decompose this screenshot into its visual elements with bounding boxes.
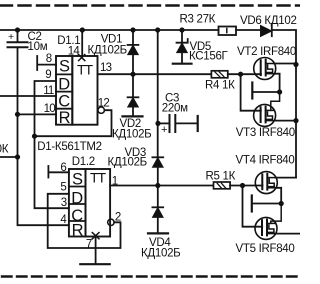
svg-text:D1.2: D1.2 — [72, 156, 95, 168]
svg-text:R3 27К: R3 27К — [180, 13, 216, 25]
svg-text:+: + — [161, 124, 167, 136]
svg-text:КД102Б: КД102Б — [88, 45, 127, 57]
svg-text:VD6 КД102: VD6 КД102 — [240, 15, 297, 27]
svg-text:S: S — [72, 171, 83, 189]
svg-text:3: 3 — [61, 197, 67, 209]
svg-text:TT: TT — [90, 169, 107, 185]
svg-text:7: 7 — [86, 239, 92, 251]
svg-text:+: + — [8, 31, 14, 43]
svg-text:R: R — [72, 221, 84, 239]
svg-text:R4 1К: R4 1К — [205, 80, 235, 92]
svg-text:1: 1 — [112, 176, 118, 188]
svg-text:10: 10 — [44, 103, 56, 115]
svg-text:8: 8 — [46, 53, 52, 65]
svg-text:R5 1К: R5 1К — [206, 170, 236, 182]
svg-text:VT5 IRF840: VT5 IRF840 — [236, 243, 295, 255]
svg-text:D1-К561ТМ2: D1-К561ТМ2 — [37, 141, 101, 153]
svg-text:S: S — [59, 58, 70, 76]
svg-text:13: 13 — [100, 62, 112, 74]
svg-text:КД102Б: КД102Б — [112, 128, 151, 140]
svg-text:VT3 IRF840: VT3 IRF840 — [236, 127, 295, 139]
svg-text:10К: 10К — [0, 143, 9, 155]
svg-text:VT2 IRF840: VT2 IRF840 — [237, 46, 296, 58]
svg-text:12: 12 — [98, 97, 110, 109]
svg-text:6: 6 — [60, 162, 66, 174]
svg-text:C: C — [58, 93, 70, 111]
svg-text:5: 5 — [60, 181, 66, 193]
svg-text:R: R — [59, 109, 71, 127]
svg-text:КС156Г: КС156Г — [189, 50, 229, 62]
svg-text:D: D — [58, 76, 70, 94]
svg-text:TT: TT — [77, 61, 94, 77]
svg-text:КД102Б: КД102Б — [141, 247, 180, 259]
svg-text:D: D — [71, 189, 83, 207]
svg-text:220м: 220м — [162, 103, 188, 115]
svg-text:КД102Б: КД102Б — [108, 156, 147, 168]
svg-text:VT4 IRF840: VT4 IRF840 — [236, 155, 295, 167]
svg-text:2: 2 — [115, 212, 121, 224]
svg-text:11: 11 — [43, 85, 54, 97]
svg-text:10м: 10м — [28, 41, 48, 53]
svg-text:14: 14 — [68, 45, 81, 57]
svg-text:9: 9 — [45, 69, 51, 81]
